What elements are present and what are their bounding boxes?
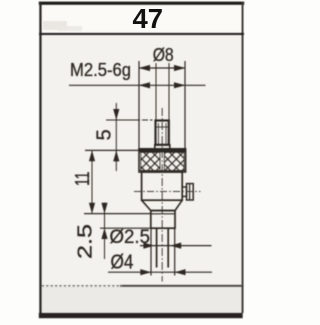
arrow Ø8 right — [174, 65, 185, 71]
extension line stud right — [168, 63, 170, 121]
svg-text:5: 5 — [94, 129, 116, 140]
svg-text:Ø8: Ø8 — [153, 45, 174, 65]
arrow 11 top — [89, 150, 95, 161]
svg-text:Ø4: Ø4 — [111, 252, 134, 274]
extension line thread top — [106, 119, 153, 121]
clamp screw neck — [182, 187, 186, 196]
knurl hatch right panel — [164, 152, 184, 170]
extension line Ø8 left — [138, 61, 140, 151]
extension line stud left — [155, 63, 157, 121]
body cylinder — [142, 172, 183, 200]
left vertical border — [39, 2, 41, 315]
knurl top band — [139, 149, 186, 153]
extension line collar bottom — [100, 227, 151, 229]
extension line Ø8 right — [184, 61, 186, 149]
stud flange — [155, 145, 170, 149]
scan smudge under top bar — [43, 21, 67, 30]
leader line M2.5-6g — [69, 84, 206, 86]
cell bottom border — [120, 285, 244, 287]
arrow Ø8 left — [139, 65, 150, 71]
arrow Ø4 right — [175, 269, 186, 275]
thread minor line left — [157, 123, 159, 144]
centerline vertical — [161, 108, 163, 282]
stem right edge — [167, 228, 169, 267]
threaded stud M2.5 — [156, 121, 169, 145]
stem left edge — [156, 228, 158, 267]
dimension line 2.5 — [104, 203, 106, 260]
svg-text:M2.5-6g: M2.5-6g — [70, 60, 131, 80]
arrow Ø2.5 left — [143, 243, 154, 249]
arrow 5 bottom — [113, 150, 119, 161]
right vertical border — [242, 2, 244, 313]
bottom black bar — [39, 313, 243, 318]
svg-text:47: 47 — [133, 3, 164, 34]
extension line knurl top — [85, 149, 140, 151]
collar inner line — [151, 213, 175, 215]
arrow 11 bottom — [89, 203, 95, 214]
svg-text:11: 11 — [72, 172, 94, 187]
collar — [151, 211, 175, 229]
extension line body bottom — [84, 213, 151, 215]
arrow leader right — [174, 82, 185, 88]
header underline — [39, 33, 244, 35]
dimension line 5 — [115, 103, 117, 171]
knurl hatch left panel — [141, 152, 160, 170]
clamp screw cap — [187, 184, 194, 200]
arrow Ø4 left — [140, 269, 151, 275]
lower gray band — [41, 287, 242, 313]
arrow 5 top — [113, 109, 119, 120]
tapered cone — [142, 200, 183, 210]
svg-text:2.5: 2.5 — [75, 224, 97, 259]
arrow leader left — [139, 82, 150, 88]
header cell background — [41, 4, 242, 33]
knurl bottom line — [139, 170, 186, 172]
extension line Ø4 right — [174, 228, 176, 275]
centerline screw axis — [134, 190, 201, 192]
arrow 2.5 top — [101, 203, 107, 214]
clamp screw cap line — [189, 184, 191, 200]
thread minor line right — [165, 123, 167, 144]
arrow Ø2.5 right — [170, 243, 181, 249]
arrow 2.5 bottom — [101, 228, 107, 239]
dimension line 11 — [91, 150, 93, 213]
knurled grip outline — [139, 149, 186, 172]
top border bar — [39, 2, 244, 5]
thread chamfer line — [157, 126, 169, 128]
extension line Ø4 left — [150, 228, 152, 275]
dimension line Ø2.5 — [140, 245, 212, 247]
drawing cell background — [41, 33, 242, 286]
dimension line Ø4 — [108, 271, 212, 273]
dimension line Ø8 — [139, 67, 185, 69]
